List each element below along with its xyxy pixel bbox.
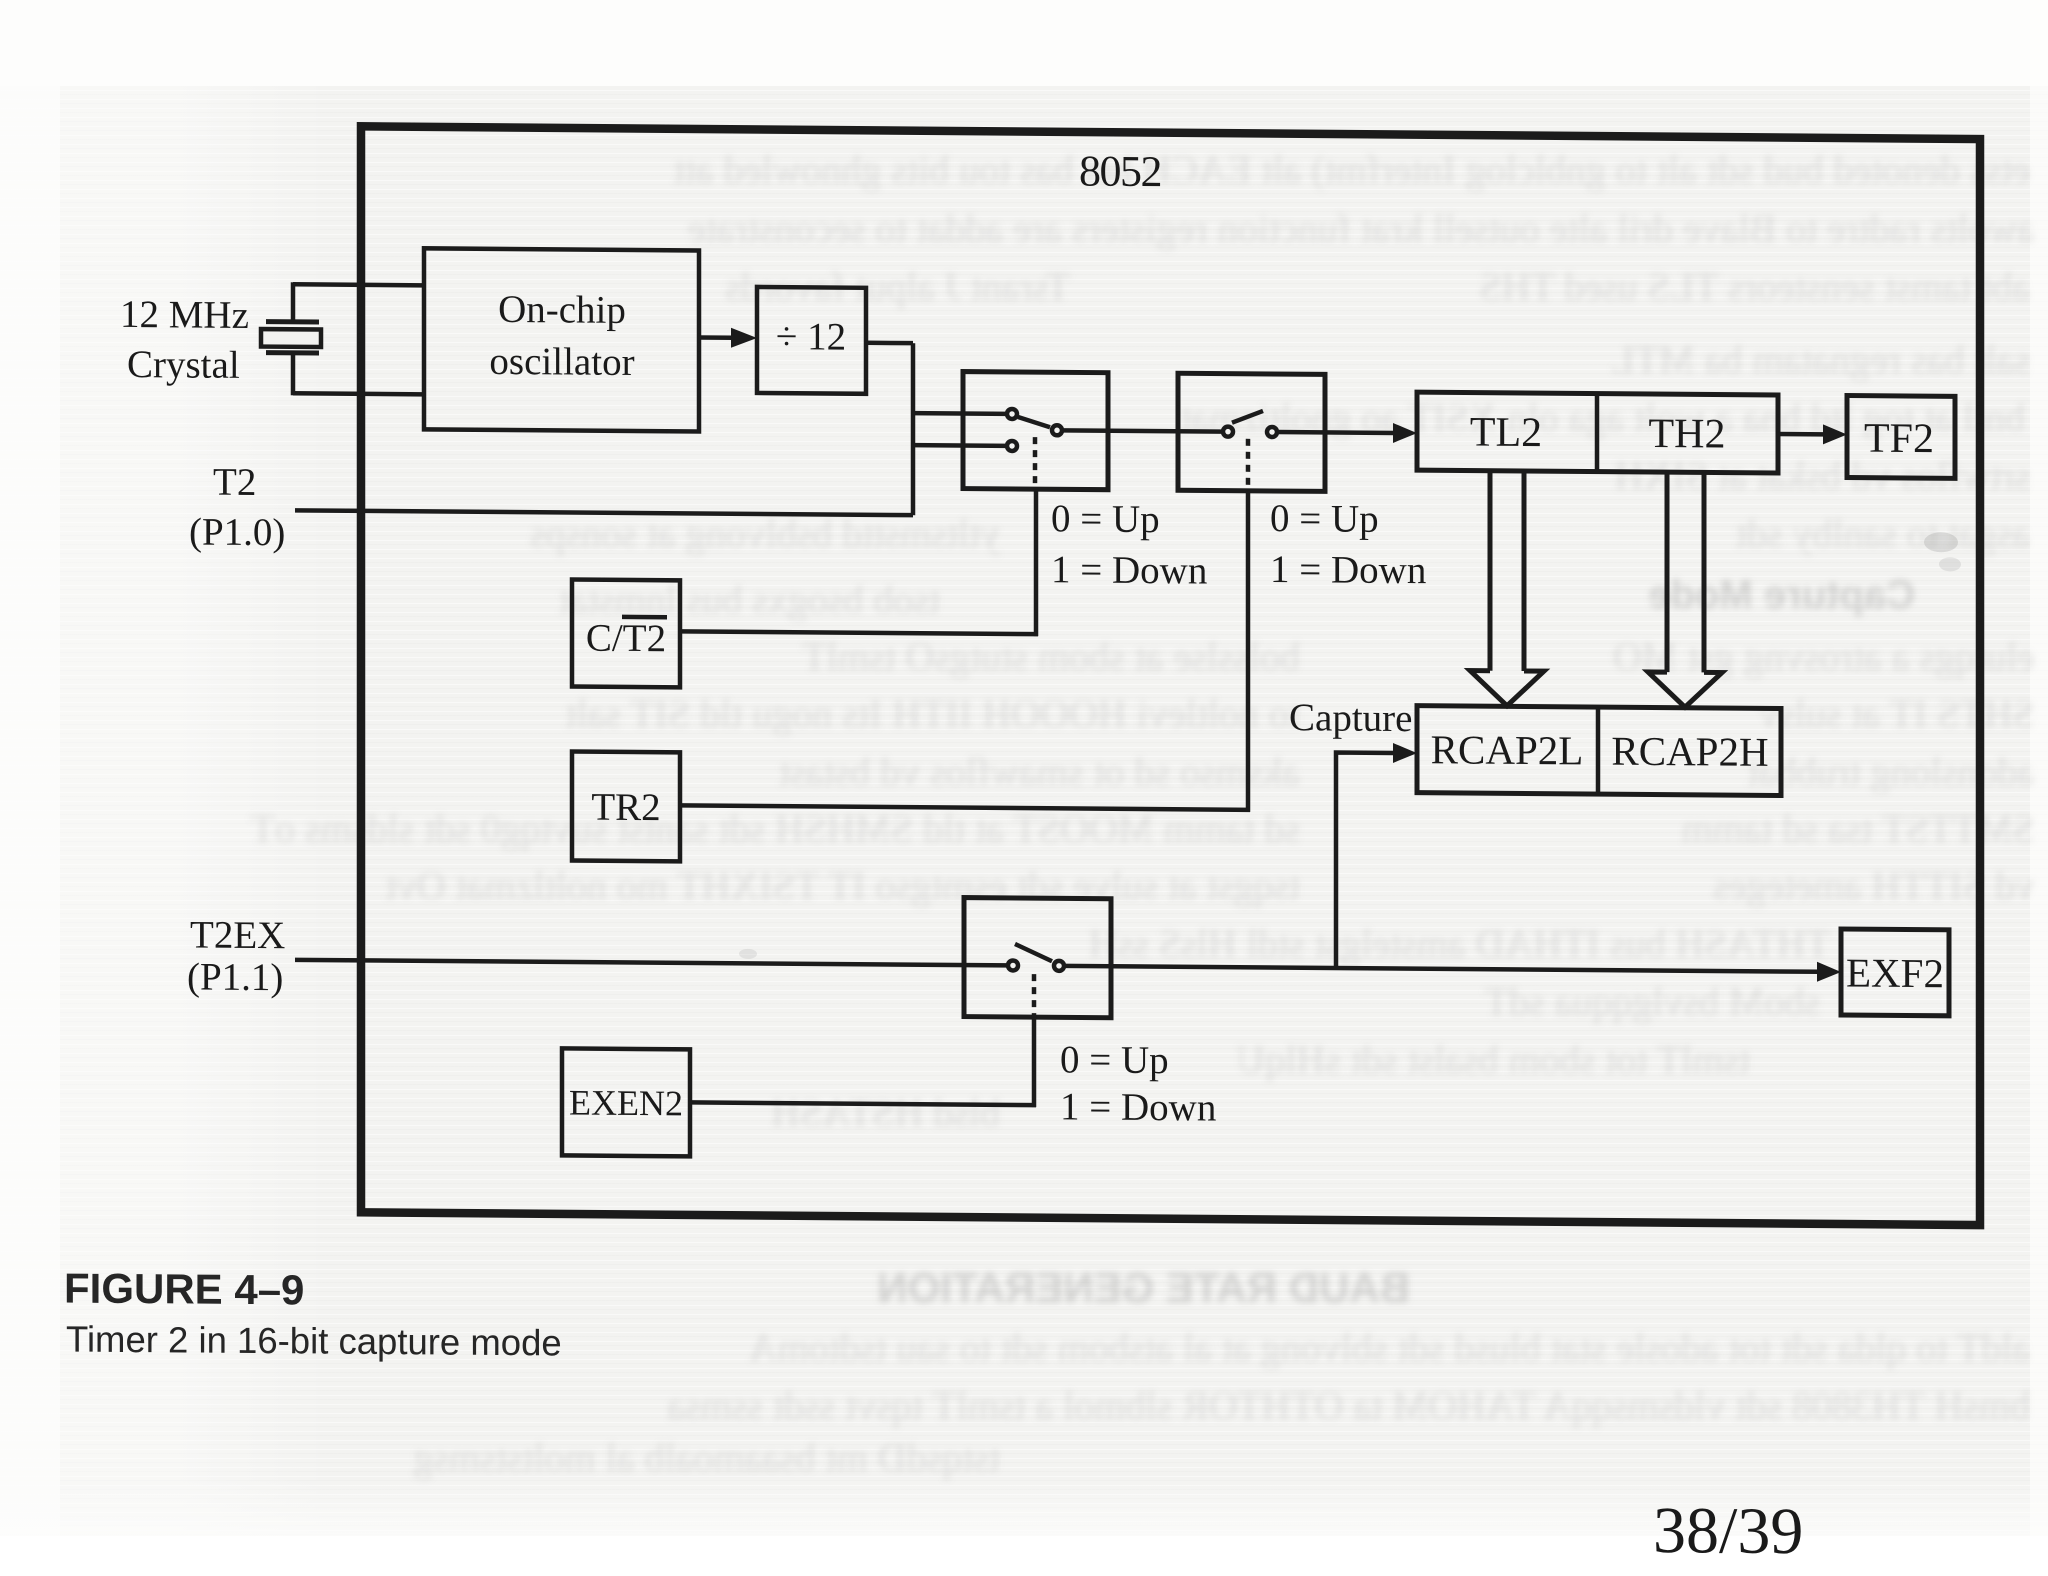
switch S3 (EXEN2 gate) box bbox=[964, 898, 1111, 1018]
svg-text:On-chip: On-chip bbox=[498, 288, 626, 332]
svg-text:Capture: Capture bbox=[1289, 696, 1412, 740]
bit TR2 box bbox=[572, 751, 680, 861]
hollow arrow: TL2 to RCAP2L bbox=[1490, 471, 1524, 671]
svg-text:FIGURE 4–9: FIGURE 4–9 bbox=[64, 1265, 304, 1314]
flag TF2 box bbox=[1847, 396, 1955, 479]
svg-text:T2: T2 bbox=[213, 461, 256, 504]
arrow: oscillator to divider bbox=[699, 335, 733, 340]
S3 lever bbox=[1015, 944, 1052, 961]
S1 upper contact bbox=[1007, 409, 1017, 419]
svg-text:T2EX: T2EX bbox=[190, 913, 285, 957]
S3 control dashed line bbox=[1032, 974, 1037, 1017]
switch S1 (C/T2 clock select) box bbox=[963, 372, 1108, 490]
svg-text:8052: 8052 bbox=[1079, 146, 1161, 196]
svg-text:EXF2: EXF2 bbox=[1846, 949, 1944, 996]
svg-text:0 = Up: 0 = Up bbox=[1270, 497, 1379, 541]
TL2/TH2 divider bbox=[1595, 394, 1600, 472]
C/T2 overline bbox=[622, 615, 667, 620]
svg-text:RCAP2H: RCAP2H bbox=[1611, 728, 1768, 775]
svg-text:Timer 2 in 16-bit capture mode: Timer 2 in 16-bit capture mode bbox=[66, 1319, 562, 1364]
svg-text:(P1.1): (P1.1) bbox=[187, 955, 283, 999]
S3 right contact bbox=[1054, 961, 1064, 971]
RCAP divider bbox=[1596, 707, 1601, 794]
S2 left contact bbox=[1223, 427, 1233, 437]
wire: T2EX (P1.1) input bbox=[295, 960, 1008, 966]
arrow: TH2 to TF2 bbox=[1778, 432, 1825, 437]
block: divide-by-12 prescaler bbox=[757, 287, 866, 394]
bit EXEN2 box bbox=[562, 1048, 690, 1156]
S2 lever bbox=[1232, 411, 1263, 423]
wire: external clock branch to S1 lower contact bbox=[913, 443, 1007, 448]
svg-text:oscillator: oscillator bbox=[489, 340, 634, 384]
bleed-through from reverse page (mirrored, blurred) bbox=[390, 150, 2030, 190]
wire: crystal top lead bbox=[293, 284, 424, 285]
svg-text:1 = Down: 1 = Down bbox=[1051, 548, 1207, 592]
wire: T2 (P1.0) input bbox=[295, 510, 913, 515]
S1 common contact bbox=[1052, 425, 1062, 435]
svg-text:Crystal: Crystal bbox=[127, 343, 240, 387]
arrow: T2EX line to EXF2 bbox=[1064, 966, 1819, 972]
wire: S3 control down to EXEN2 bbox=[1032, 1017, 1037, 1107]
svg-text:TF2: TF2 bbox=[1864, 416, 1934, 463]
svg-text:38/39: 38/39 bbox=[1653, 1494, 1803, 1568]
wire: internal clock branch to S1 upper contact bbox=[913, 411, 1007, 416]
register RCAP2L/RCAP2H box bbox=[1417, 706, 1781, 796]
switch S2 (TR2 run control) box bbox=[1178, 373, 1325, 491]
S1 lever bbox=[1018, 417, 1050, 427]
S3 left contact bbox=[1008, 960, 1018, 970]
svg-text:RCAP2L: RCAP2L bbox=[1431, 726, 1584, 773]
hollow arrow: TH2 to RCAP2H bbox=[1667, 472, 1704, 672]
wire: S2 control down to TR2 bbox=[1246, 491, 1251, 812]
svg-text:1 = Down: 1 = Down bbox=[1060, 1085, 1216, 1129]
svg-text:TL2: TL2 bbox=[1470, 410, 1542, 457]
wire: crystal vertical leads bbox=[291, 282, 296, 395]
svg-text:12 MHz: 12 MHz bbox=[120, 293, 249, 337]
wire: C/T2 to S1 bbox=[680, 631, 1038, 634]
scan smudge left of switch1 bbox=[739, 949, 757, 959]
wire: TR2 to S2 bbox=[680, 805, 1250, 809]
crystal X1 (12 MHz) bbox=[261, 322, 321, 353]
svg-text:÷ 12: ÷ 12 bbox=[776, 315, 846, 359]
svg-text:EXEN2: EXEN2 bbox=[569, 1082, 683, 1123]
block: on-chip oscillator bbox=[424, 248, 699, 431]
S2 control dashed line bbox=[1246, 439, 1251, 491]
S1 lower contact bbox=[1007, 441, 1017, 451]
wire: S1 common to S2 bbox=[1062, 430, 1223, 431]
svg-text:TH2: TH2 bbox=[1649, 411, 1726, 458]
wire: crystal bottom lead bbox=[293, 393, 424, 394]
register TL2/TH2 box bbox=[1417, 392, 1778, 473]
wire: EXEN2 to S3 bbox=[690, 1102, 1036, 1105]
8052 outer box bbox=[361, 126, 1980, 1225]
svg-text:1 = Down: 1 = Down bbox=[1270, 548, 1426, 592]
flag EXF2 box bbox=[1841, 929, 1949, 1016]
arrow: S2 to TL2 bbox=[1277, 430, 1395, 435]
svg-text:0 = Up: 0 = Up bbox=[1060, 1038, 1169, 1082]
svg-text:0 = Up: 0 = Up bbox=[1051, 497, 1160, 541]
svg-text:TR2: TR2 bbox=[591, 786, 660, 830]
bit C/T2 box bbox=[572, 579, 680, 687]
wire: capture strobe (from T2EX line up to RCAP2L) bbox=[1336, 752, 1395, 967]
svg-text:(P1.0): (P1.0) bbox=[189, 510, 285, 554]
svg-text:C/T2: C/T2 bbox=[586, 617, 666, 661]
wire: divider output bbox=[866, 341, 913, 346]
wire: clock-select vertical bbox=[911, 343, 916, 515]
S1 control dashed line bbox=[1033, 437, 1038, 489]
scan smudge near TF2 bbox=[1924, 532, 1958, 552]
wire: S1 control down to C/T2 bbox=[1034, 489, 1039, 636]
S2 right contact bbox=[1267, 427, 1277, 437]
